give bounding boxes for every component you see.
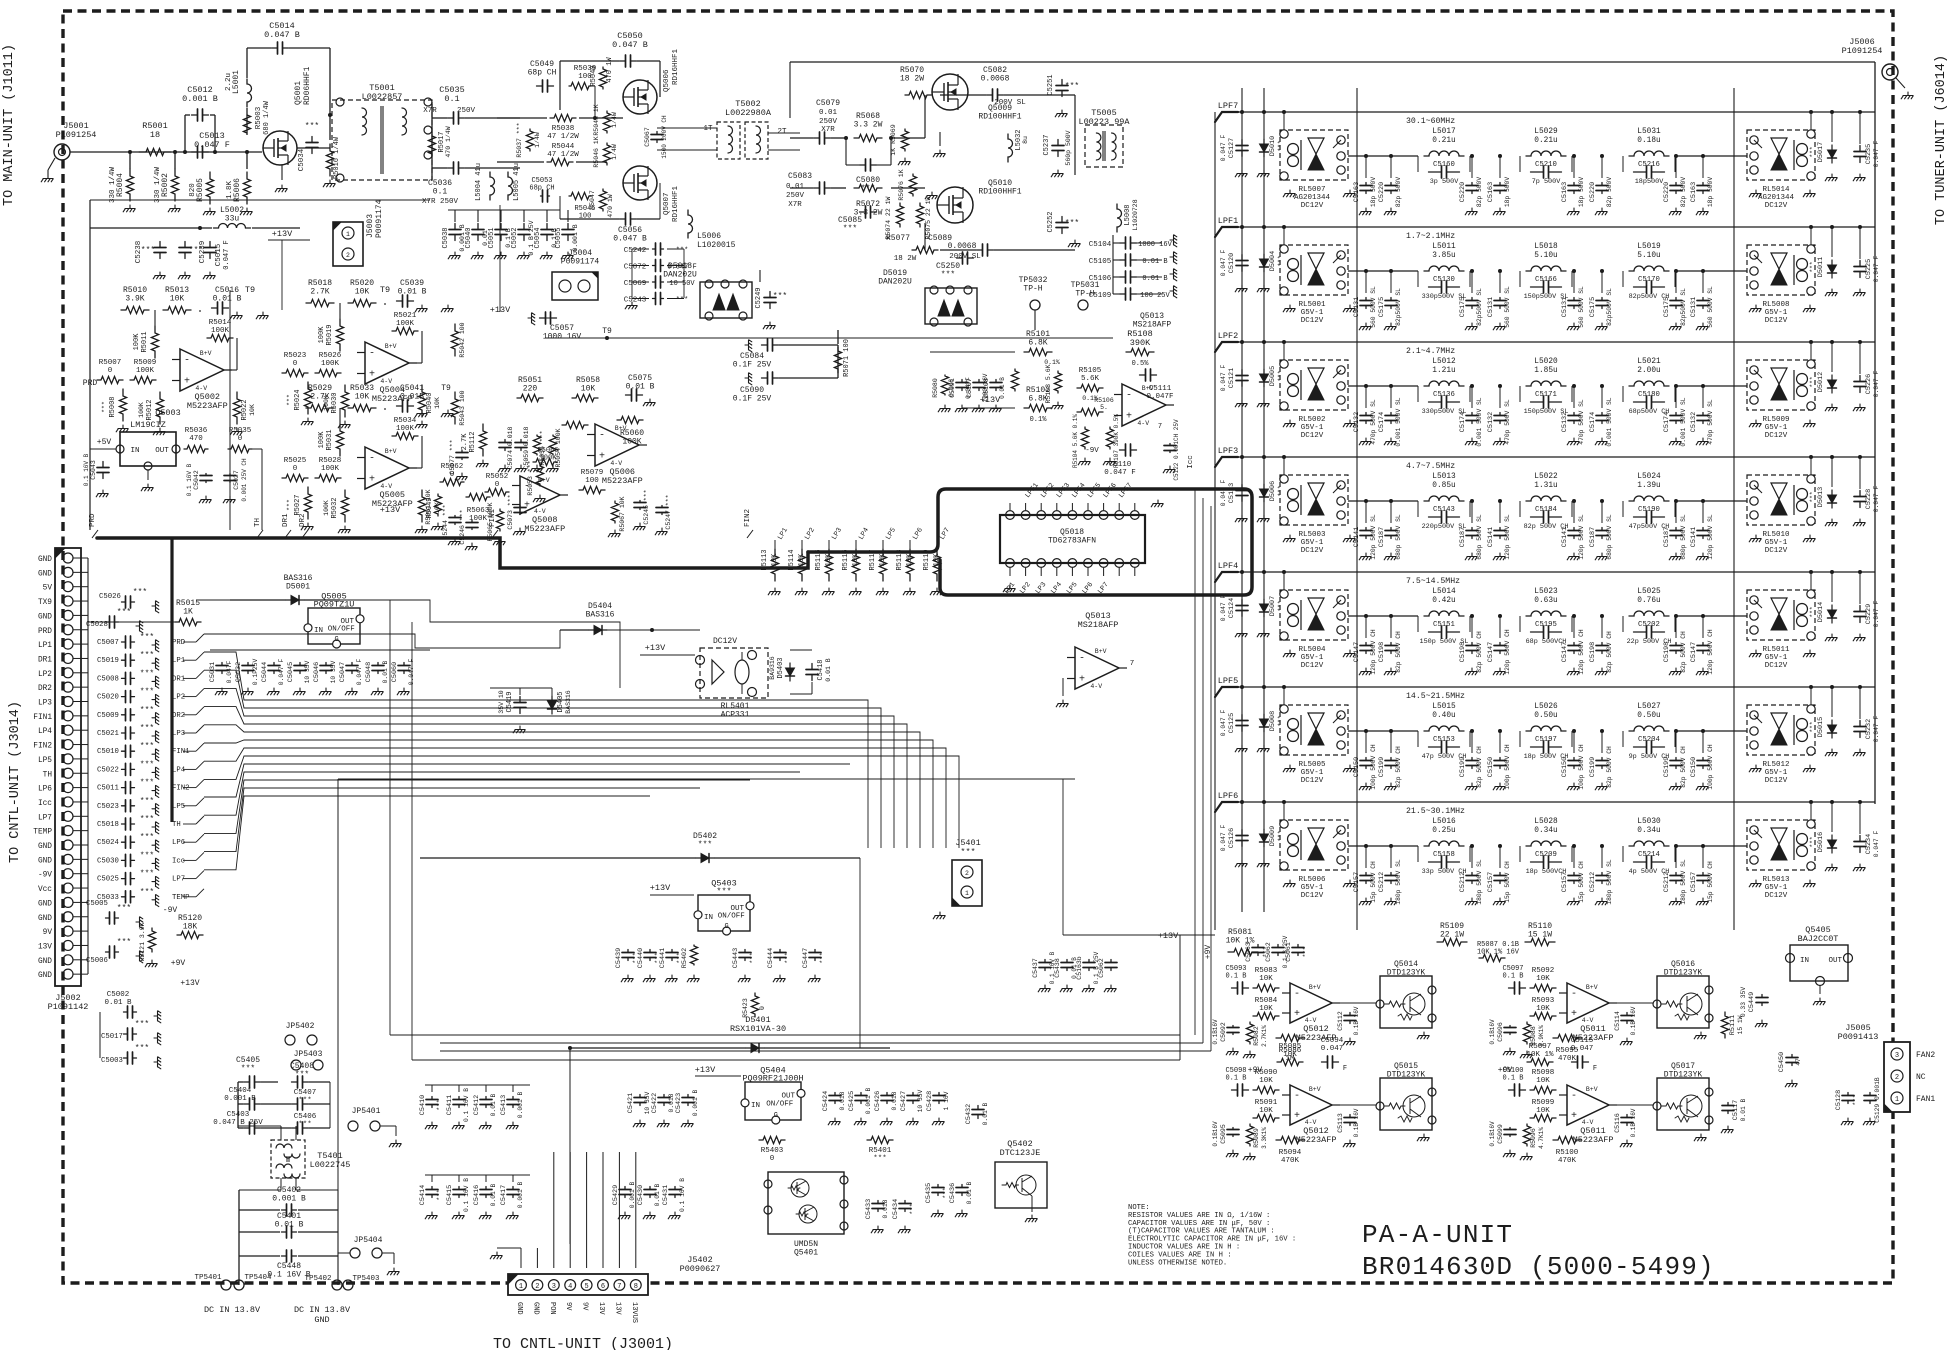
svg-text:C5187: C5187 — [1459, 527, 1467, 547]
svg-text:C5157: C5157 — [1690, 872, 1698, 892]
svg-text:P1091142: P1091142 — [48, 1002, 89, 1012]
svg-text:L1020015: L1020015 — [697, 241, 736, 250]
capacitor C5157 — [1360, 873, 1372, 884]
svg-text:15p 500V CH: 15p 500V CH — [1707, 861, 1714, 903]
svg-text:100K: 100K — [396, 320, 415, 328]
svg-text:C5432: C5432 — [965, 1104, 973, 1124]
svg-text:560 500V SL: 560 500V SL — [1504, 286, 1511, 328]
svg-text:***: *** — [941, 270, 955, 279]
svg-text:0.047 F: 0.047 F — [1220, 480, 1227, 507]
inductor L5022 — [1526, 496, 1566, 501]
svg-text:100p 500V CH: 100p 500V CH — [1707, 744, 1714, 790]
capacitor C5405 — [244, 1076, 261, 1088]
svg-text:L5031: L5031 — [1637, 128, 1661, 136]
resistor R5033 — [348, 404, 376, 411]
svg-text:C5407: C5407 — [294, 1089, 317, 1097]
svg-text:-: - — [1079, 654, 1085, 665]
capacitor C5018 — [122, 818, 135, 830]
svg-text:RD06HHF1: RD06HHF1 — [303, 66, 312, 105]
IC Q5018 — [1000, 515, 1145, 563]
wire — [246, 48, 248, 78]
svg-text:C5232: C5232 — [1865, 719, 1873, 739]
svg-text:C5141: C5141 — [1690, 527, 1698, 547]
resistor R5058 — [572, 394, 598, 401]
svg-text:***: *** — [305, 122, 319, 131]
svg-text:5.: 5. — [1100, 404, 1108, 411]
svg-text:L5023: L5023 — [1534, 588, 1558, 596]
svg-text:Q5001: Q5001 — [294, 81, 303, 105]
svg-text:***: *** — [133, 588, 147, 597]
resistor R5025 — [282, 474, 308, 481]
svg-text:R5107 390K 0.5%: R5107 390K 0.5% — [1113, 414, 1120, 468]
svg-text:C5198: C5198 — [1663, 642, 1671, 662]
svg-text:C5132: C5132 — [1690, 412, 1698, 432]
transformer T5001 — [332, 100, 432, 180]
svg-text:C5073 ***: C5073 *** — [507, 494, 514, 529]
svg-text:R5036: R5036 — [185, 427, 208, 435]
svg-text:C5437: C5437 — [1032, 958, 1039, 978]
svg-text:LPF6: LPF6 — [1218, 791, 1238, 801]
diode D5001 — [286, 596, 304, 605]
capacitor C5158 — [1429, 856, 1460, 868]
resistor R5011 — [151, 326, 158, 358]
capacitor C5150 — [1494, 758, 1506, 769]
svg-text:C5414: C5414 — [419, 1185, 427, 1205]
resistor R5039 — [569, 82, 591, 89]
svg-text:DR1: DR1 — [38, 656, 52, 664]
diode D5016 — [1828, 835, 1837, 853]
svg-text:0.01: 0.01 — [819, 109, 838, 117]
capacitor C5040 — [472, 224, 484, 241]
svg-text:0.001 B: 0.001 B — [629, 1182, 636, 1209]
svg-text:C5147: C5147 — [1561, 642, 1569, 662]
svg-text:TP-H: TP-H — [1075, 289, 1094, 298]
wire staircase — [196, 600, 620, 688]
op-amp Q5005 — [365, 447, 409, 489]
capacitor C5195 — [1531, 626, 1562, 638]
svg-text:10K: 10K — [581, 384, 596, 393]
svg-text:7: 7 — [1158, 423, 1162, 431]
svg-text:L0022745: L0022745 — [310, 1160, 351, 1170]
svg-text:C5440: C5440 — [637, 948, 645, 968]
svg-text:470 1W: 470 1W — [606, 57, 614, 83]
svg-text:C5406: C5406 — [294, 1113, 317, 1121]
svg-text:D5010: D5010 — [1269, 136, 1277, 156]
svg-text:C5021: C5021 — [97, 730, 120, 738]
svg-text:B+V: B+V — [200, 350, 212, 357]
relay RL5401 — [700, 648, 768, 698]
svg-text:TO CNTL-UNIT (J3001): TO CNTL-UNIT (J3001) — [493, 1336, 673, 1350]
connector J5004 — [552, 272, 598, 300]
capacitor C5003 — [124, 1052, 137, 1064]
svg-text:FIN2: FIN2 — [33, 743, 52, 751]
capacitor C5220 — [1596, 183, 1608, 194]
capacitor C5171 — [1531, 396, 1562, 408]
svg-text:C5147: C5147 — [1487, 642, 1495, 662]
svg-text:180p 500V SL: 180p 500V SL — [1395, 859, 1402, 905]
svg-text:DC12V: DC12V — [1765, 547, 1788, 555]
svg-text:L0022857: L0022857 — [362, 92, 403, 102]
svg-text:NOTE:: NOTE: — [1128, 1204, 1150, 1212]
svg-text:2.00u: 2.00u — [1637, 367, 1661, 375]
svg-text:C5043: C5043 — [90, 460, 97, 480]
svg-text:LP4: LP4 — [172, 766, 186, 774]
inductor L5019 — [1629, 266, 1669, 271]
svg-text:120p 500V CH: 120p 500V CH — [1370, 629, 1377, 675]
svg-text:250V: 250V — [786, 192, 805, 200]
capacitor C5045 — [294, 663, 306, 674]
svg-text:IN: IN — [704, 914, 713, 922]
svg-text:0.1B 16V: 0.1B 16V — [1630, 1108, 1637, 1137]
jumper JP5404 — [350, 1248, 360, 1258]
capacitor C5141 — [1697, 528, 1709, 539]
capacitor C5120 — [1236, 255, 1248, 272]
svg-text:4-V: 4-V — [534, 508, 546, 515]
capacitor C5228 — [1854, 491, 1866, 508]
svg-text:P0091174: P0091174 — [375, 199, 384, 238]
svg-text:+: + — [369, 475, 375, 486]
svg-text:82p500V SL: 82p500V SL — [1476, 288, 1483, 326]
svg-text:C5238: C5238 — [135, 241, 143, 264]
svg-text:X7R 250V: X7R 250V — [422, 198, 459, 206]
svg-text:AG201344: AG201344 — [1294, 194, 1331, 202]
svg-text:RD100HHF1: RD100HHF1 — [978, 112, 1021, 121]
resistor R5120 — [177, 931, 203, 938]
svg-text:0.1B16V: 0.1B16V — [1212, 1019, 1219, 1045]
svg-text:15p 500V CH: 15p 500V CH — [1578, 861, 1585, 903]
resistor R5026 — [315, 369, 341, 376]
capacitor C5106 — [1120, 271, 1137, 283]
svg-text:RD100HHF1: RD100HHF1 — [978, 187, 1021, 196]
svg-text:+13V: +13V — [380, 505, 401, 515]
svg-text:C5175: C5175 — [1378, 297, 1386, 317]
svg-text:+13V: +13V — [695, 1065, 716, 1075]
svg-text:R5115: R5115 — [815, 549, 823, 570]
svg-text:4-V: 4-V — [610, 460, 622, 467]
resistor R5106 — [1077, 408, 1103, 415]
svg-text:0.01 B: 0.01 B — [398, 287, 427, 296]
svg-text:L5008: L5008 — [1124, 204, 1132, 225]
test point TP5031 — [1078, 300, 1088, 310]
svg-text:-: - — [599, 431, 605, 442]
resistor R5099 — [1530, 1114, 1556, 1121]
svg-text:470p 500V SL: 470p 500V SL — [1504, 399, 1511, 445]
resistor R5035 — [228, 445, 252, 452]
svg-text:C5447: C5447 — [802, 948, 810, 968]
svg-text:R5112: R5112 — [469, 431, 477, 452]
transformer T5002 — [717, 122, 740, 159]
capacitor C5014 — [272, 42, 289, 54]
test point TP5401 — [221, 1280, 231, 1290]
svg-text:0.01 B: 0.01 B — [490, 1183, 497, 1206]
capacitor C5112 — [1344, 1013, 1356, 1024]
capacitor C5235 — [1854, 146, 1866, 163]
capacitor C5109 — [1120, 288, 1137, 300]
capacitor C5198 — [1466, 643, 1478, 654]
svg-text:82p 500V CH: 82p 500V CH — [1606, 746, 1613, 788]
capacitor C5025 — [122, 873, 135, 885]
svg-text:JP5404: JP5404 — [354, 1236, 383, 1245]
capacitor C5170 — [1634, 281, 1665, 293]
svg-text:(T)CAPACITOR VALUES ARE TANTAL: (T)CAPACITOR VALUES ARE TANTALUM : — [1128, 1228, 1275, 1236]
svg-text:5: 5 — [584, 1283, 588, 1291]
svg-text:DTD123YK: DTD123YK — [1664, 1070, 1703, 1079]
svg-text:RESISTOR VALUES ARE IN Ω, 1/16: RESISTOR VALUES ARE IN Ω, 1/16W : — [1128, 1212, 1270, 1220]
svg-text:120p 500V CH: 120p 500V CH — [1504, 629, 1511, 675]
svg-text:C5096: C5096 — [1497, 1022, 1504, 1042]
svg-text:C5199: C5199 — [1378, 757, 1386, 777]
capacitor C5220 — [1466, 183, 1478, 194]
svg-text:-: - — [1294, 1091, 1300, 1102]
svg-text:+: + — [1294, 1009, 1300, 1020]
svg-text:7.5~14.5MHz: 7.5~14.5MHz — [1406, 577, 1460, 586]
diode D5403 — [786, 663, 795, 681]
svg-text:+: + — [1294, 1111, 1300, 1122]
svg-text:+: + — [524, 501, 530, 512]
svg-text:C5198: C5198 — [1589, 642, 1597, 662]
svg-text:TP5404: TP5404 — [244, 1274, 272, 1282]
svg-text:-9V: -9V — [163, 906, 178, 915]
svg-text:R5119: R5119 — [923, 549, 931, 570]
svg-text:C5007: C5007 — [97, 639, 119, 647]
resistor R5085 — [1277, 1058, 1303, 1065]
svg-text:+13V: +13V — [272, 229, 293, 239]
resistor R5116 — [852, 549, 859, 581]
svg-text:C5430: C5430 — [637, 1185, 645, 1205]
svg-text:15p 500V CH: 15p 500V CH — [1504, 861, 1511, 903]
capacitor C5022 — [122, 763, 135, 775]
resistor R5095 — [1553, 1034, 1581, 1041]
svg-text:C5174: C5174 — [1459, 412, 1467, 432]
capacitor C5424 — [829, 1093, 841, 1104]
relay RL5004 — [1280, 590, 1348, 640]
capacitor C5032 — [242, 663, 254, 674]
svg-text:C5199: C5199 — [1589, 757, 1597, 777]
svg-text:***: *** — [1302, 947, 1309, 958]
svg-text:GND: GND — [38, 570, 52, 578]
capacitor C5151 — [1429, 626, 1460, 638]
svg-text:TO MAIN-UNIT (J1011): TO MAIN-UNIT (J1011) — [2, 44, 17, 206]
svg-text:R5074 22 1W: R5074 22 1W — [885, 196, 892, 239]
svg-text:10K: 10K — [355, 392, 370, 401]
capacitor C5038 — [449, 224, 461, 241]
svg-text:***: *** — [676, 297, 689, 305]
relay RL5002 — [1280, 360, 1348, 410]
svg-text:C5237: C5237 — [1043, 134, 1051, 155]
svg-text:LP1: LP1 — [172, 657, 186, 665]
svg-text:***: *** — [749, 952, 756, 964]
svg-text:0.50u: 0.50u — [1637, 712, 1661, 720]
svg-text:R5071 100: R5071 100 — [843, 339, 851, 377]
capacitor C5042 — [200, 474, 212, 483]
diode D5014 — [1828, 605, 1837, 623]
resistor R5118 — [906, 549, 913, 581]
capacitor C5114 — [1621, 1013, 1633, 1024]
svg-text:G5V-1: G5V-1 — [1765, 309, 1788, 317]
relay RL5001 — [1280, 245, 1348, 295]
svg-text:C5422: C5422 — [651, 1093, 659, 1113]
resistor R5046 — [603, 143, 610, 165]
svg-text:R5040: R5040 — [426, 392, 434, 413]
connector J5006 — [1882, 64, 1898, 80]
resistor R5002 — [171, 169, 178, 201]
resistor R5040 — [418, 385, 425, 417]
svg-text:G5V-1: G5V-1 — [1765, 769, 1788, 777]
resistor R5038 — [550, 114, 576, 121]
svg-text:0.047 B: 0.047 B — [264, 30, 300, 40]
svg-text:1/4W: 1/4W — [611, 144, 618, 160]
capacitor C5093 — [1232, 982, 1249, 994]
svg-text:R5094: R5094 — [1279, 1149, 1302, 1157]
svg-text:R5118: R5118 — [896, 549, 904, 570]
svg-text:D5006: D5006 — [1269, 481, 1277, 501]
transistor Q5006 — [623, 80, 657, 114]
op-amp Q5011 — [1567, 1085, 1609, 1125]
svg-text:RL5010: RL5010 — [1762, 531, 1790, 539]
svg-text:B+V: B+V — [385, 448, 397, 455]
resistor R5034 — [392, 432, 418, 439]
svg-text:G5V-1: G5V-1 — [1301, 654, 1324, 662]
svg-text:P1091254: P1091254 — [56, 130, 97, 140]
svg-text:10K: 10K — [1259, 1005, 1273, 1013]
svg-text:LP3: LP3 — [38, 700, 52, 708]
svg-text:100K: 100K — [321, 465, 340, 473]
svg-text:L5017: L5017 — [1432, 128, 1456, 136]
svg-text:C5199: C5199 — [1663, 757, 1671, 777]
diode D5018 — [700, 282, 752, 318]
svg-text:D5013: D5013 — [1817, 487, 1825, 507]
svg-text:ACP331: ACP331 — [721, 710, 750, 719]
resistor R5037 — [526, 129, 533, 151]
svg-text:+: + — [599, 452, 605, 463]
resistor R5009 — [130, 376, 156, 383]
wire — [759, 270, 761, 282]
capacitor C5212 — [1670, 873, 1682, 884]
svg-text:18 2W: 18 2W — [894, 255, 917, 263]
svg-text:180p 500V SL: 180p 500V SL — [1606, 859, 1613, 905]
svg-text:TH: TH — [172, 821, 181, 829]
svg-text:***: *** — [1809, 491, 1816, 503]
svg-text:0.01 B: 0.01 B — [966, 1181, 973, 1204]
diode D5017 — [1828, 145, 1837, 163]
svg-text:82p 500V CH: 82p 500V CH — [1476, 631, 1483, 673]
svg-text:4-V: 4-V — [1305, 1017, 1317, 1024]
resistor R5119 — [933, 549, 940, 581]
svg-text:18p 500V: 18p 500V — [1504, 177, 1511, 207]
capacitor C5431 — [669, 1187, 681, 1198]
capacitor C5422 — [658, 1095, 670, 1106]
svg-text:0.047 F: 0.047 F — [408, 659, 415, 686]
svg-text:4: 4 — [568, 1283, 572, 1291]
resistor R5096 — [1523, 1124, 1530, 1146]
svg-text:0.1%: 0.1% — [1030, 416, 1048, 424]
svg-text:18p 500V: 18p 500V — [1370, 177, 1377, 207]
diode D5011 — [1828, 260, 1837, 278]
svg-text:C5415: C5415 — [446, 1185, 454, 1205]
svg-text:DAN202U: DAN202U — [663, 270, 697, 279]
capacitor C5402 — [282, 1204, 297, 1216]
connector J5002 — [55, 548, 81, 986]
svg-text:G5V-1: G5V-1 — [1765, 654, 1788, 662]
svg-text:L5014: L5014 — [1432, 588, 1456, 596]
svg-text:0.85u: 0.85u — [1432, 482, 1456, 490]
svg-text:L5027: L5027 — [1637, 703, 1661, 711]
svg-text:1.85u: 1.85u — [1534, 367, 1558, 375]
inductor L5031 — [1629, 151, 1669, 156]
svg-text:4-V: 4-V — [1137, 420, 1149, 427]
svg-text:0.047: 0.047 — [1321, 1045, 1344, 1053]
svg-text:1K: 1K — [183, 607, 193, 616]
resistor R5010 — [121, 306, 149, 313]
capacitor C5419 — [514, 697, 526, 714]
op-amp Q5002 — [180, 349, 224, 391]
svg-text:L5015: L5015 — [1432, 703, 1456, 711]
resistor R5110 — [1525, 938, 1555, 945]
svg-text:***: *** — [286, 499, 293, 511]
transformer T5005 — [1085, 125, 1123, 167]
svg-text:***: *** — [140, 724, 154, 733]
svg-text:C5429: C5429 — [612, 1185, 620, 1205]
svg-text:0.01 B: 0.01 B — [1142, 275, 1167, 283]
svg-text:C5121: C5121 — [1228, 368, 1236, 388]
svg-text:TO CNTL-UNIT (J3014): TO CNTL-UNIT (J3014) — [8, 701, 23, 863]
capacitor C5199 — [1385, 758, 1397, 769]
svg-text:C5431: C5431 — [662, 1185, 670, 1205]
svg-text:C5017: C5017 — [101, 1033, 123, 1041]
svg-text:18K: 18K — [183, 922, 198, 931]
svg-text:T9: T9 — [380, 285, 390, 295]
inductor L5026 — [1526, 726, 1566, 731]
svg-text:R5002: R5002 — [161, 173, 170, 197]
svg-text:0.047 F: 0.047 F — [1220, 365, 1227, 392]
svg-text:10K: 10K — [434, 397, 441, 409]
svg-text:C5005: C5005 — [86, 900, 108, 908]
capacitor C5220 — [1670, 183, 1682, 194]
resistor R5076 — [909, 174, 916, 196]
svg-text:***: *** — [1809, 146, 1816, 158]
capacitor C5434 — [899, 1201, 911, 1212]
capacitor C5198 — [1670, 643, 1682, 654]
svg-text:1/4W: 1/4W — [534, 132, 541, 148]
resistor R5052 — [485, 488, 509, 495]
svg-text:***: *** — [873, 1155, 887, 1163]
capacitor C5407 — [292, 1098, 309, 1110]
svg-text:IN: IN — [130, 447, 139, 455]
svg-text:680 1/4W: 680 1/4W — [263, 100, 271, 134]
svg-text:C5174: C5174 — [1378, 412, 1386, 432]
svg-text:C5187: C5187 — [1589, 527, 1597, 547]
capacitor C5150 — [1568, 758, 1580, 769]
svg-text:C5229: C5229 — [1865, 604, 1873, 624]
svg-text:***: *** — [140, 779, 154, 788]
svg-text:G5V-1: G5V-1 — [1765, 884, 1788, 892]
capacitor C5105 — [1120, 254, 1137, 266]
svg-text:C5099: C5099 — [1497, 1124, 1504, 1144]
svg-text:0: 0 — [293, 465, 298, 473]
capacitor C5175 — [1466, 298, 1478, 309]
svg-text:0.01 B: 0.01 B — [999, 377, 1006, 399]
svg-text:+: + — [1079, 675, 1085, 686]
svg-text:***: *** — [773, 292, 787, 301]
svg-text:L5005 41u: L5005 41u — [513, 163, 521, 201]
svg-text:13VUS: 13VUS — [630, 1302, 638, 1323]
svg-text:L5025: L5025 — [1637, 588, 1661, 596]
svg-text:RL5014: RL5014 — [1762, 186, 1790, 194]
svg-text:DC12V: DC12V — [1765, 892, 1788, 900]
svg-text:35V 10: 35V 10 — [498, 690, 505, 714]
svg-text:0.76u: 0.76u — [1637, 597, 1661, 605]
svg-text:DC12V: DC12V — [1301, 662, 1324, 670]
